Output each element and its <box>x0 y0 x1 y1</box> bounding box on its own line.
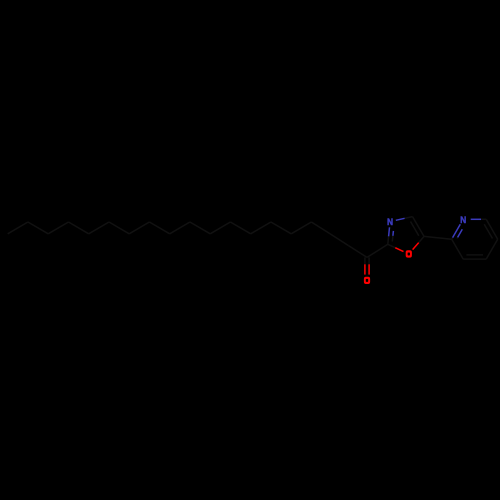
bond C19-C2(oxazole) <box>367 244 388 257</box>
wire bond C9-C10 (alkyl chain) <box>170 222 190 234</box>
wire bond C4-C5 (alkyl chain) <box>69 222 89 234</box>
bond C3'-C2' pyridine <box>452 239 464 259</box>
bond C5-C2' biaryl link <box>424 236 452 239</box>
svg-text:N: N <box>387 217 393 227</box>
wire bond C12-C13 (alkyl chain) <box>230 222 250 234</box>
wire bond C5-C6 (alkyl chain) <box>89 222 109 234</box>
bond C19=O ketone line b <box>368 257 370 274</box>
wire bond C3-C4 (alkyl chain) <box>48 222 68 234</box>
bond N3-C4 oxazole <box>396 217 413 221</box>
bond N1'-C6' pyridine <box>471 218 487 220</box>
bond C2=N3 oxazole <box>388 227 394 244</box>
wire bond C11-C12 (alkyl chain) <box>210 222 230 234</box>
bond C2'=N1' pyridine <box>452 224 463 239</box>
wire bond C8-C9 (alkyl chain) <box>149 222 169 234</box>
bond C6'=C5' pyridine <box>484 219 498 239</box>
wire bond C13-C14 (alkyl chain) <box>251 222 271 234</box>
wire bond C15-C16 (alkyl chain) <box>291 222 311 234</box>
wire bond C2-C3 (alkyl chain) <box>28 222 48 234</box>
wire bond C1-C2 (alkyl chain) <box>8 222 28 234</box>
bond O1-C2 oxazole <box>388 244 404 251</box>
atom label O ketone <box>364 277 370 284</box>
bond C5-O1 oxazole <box>413 236 424 249</box>
wire bond C16-C17 (alkyl chain) <box>311 222 330 234</box>
wire bond C17-C18 (alkyl chain) <box>330 234 349 246</box>
wire bond C7-C8 (alkyl chain) <box>129 222 149 234</box>
bond C5'-C4' pyridine <box>486 239 498 259</box>
bond C4'=C3' pyridine <box>463 255 486 259</box>
bond C19=O ketone line a <box>364 257 366 274</box>
wire bond C14-C15 (alkyl chain) <box>271 222 291 234</box>
wire bond C10-C11 (alkyl chain) <box>190 222 210 234</box>
wire bond C6-C7 (alkyl chain) <box>109 222 129 234</box>
svg-text:N: N <box>460 215 466 225</box>
wire bond C18-C19 (alkyl chain) <box>349 246 368 258</box>
atom label O1 oxazole <box>406 250 412 257</box>
bond C4=C5 oxazole <box>411 217 425 237</box>
